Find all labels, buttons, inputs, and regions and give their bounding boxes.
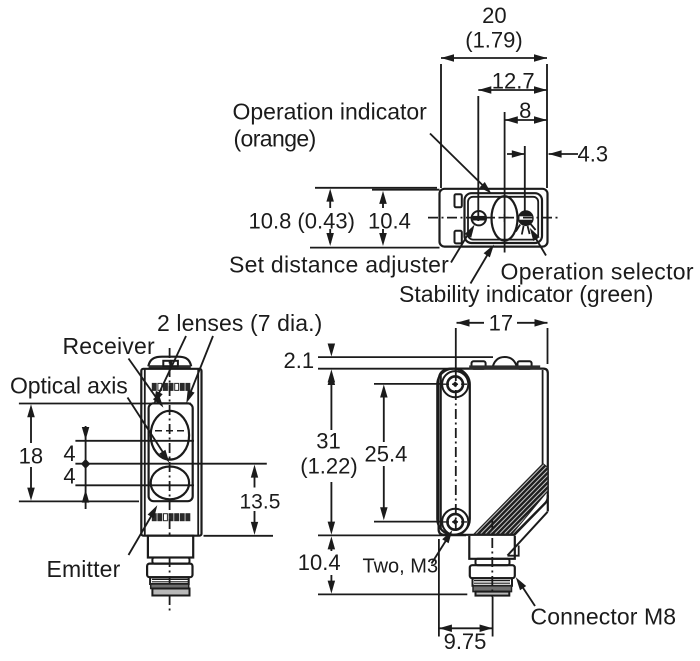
- side view: body outline: [439, 369, 548, 535]
- side view: connector ring 1: [476, 559, 510, 565]
- side view: screw cross lines: [443, 383, 468, 385]
- svg-text:10.8 (0.43): 10.8 (0.43): [249, 209, 355, 234]
- side view: connector neck: [469, 536, 515, 559]
- top view: horizontal center line: [428, 217, 560, 219]
- svg-text:Optical axis: Optical axis: [10, 373, 128, 399]
- side view: 25.4 extension lines: [374, 383, 441, 385]
- svg-text:4.3: 4.3: [578, 142, 609, 167]
- side view: dimension 10.4: [330, 541, 332, 552]
- side view: connector collar: [470, 565, 515, 578]
- dimension 4 lower arrow: [82, 490, 90, 503]
- front view: top vent dot band: [152, 383, 156, 390]
- leader: stability indicator: [471, 248, 492, 284]
- side view: connector tip: [476, 592, 510, 596]
- svg-text:Operation indicator: Operation indicator: [233, 99, 428, 125]
- top view: selector fan tick marks: [516, 225, 520, 232]
- svg-text:Stability indicator (green): Stability indicator (green): [399, 281, 653, 307]
- side view: 31/10.4 bottom extension line: [318, 534, 466, 536]
- side view: 17 extension right: [547, 328, 549, 364]
- svg-text:12.7: 12.7: [492, 69, 535, 94]
- front view: body inner edge right: [197, 370, 199, 536]
- front view: bottom vent dot band: [152, 514, 156, 521]
- dimension 13.5 line and arrows: [254, 469, 256, 488]
- svg-text:Two, M3: Two, M3: [363, 556, 439, 578]
- svg-text:10.4: 10.4: [368, 209, 411, 234]
- dimension 10.8 arrows: [329, 193, 331, 208]
- svg-text:25.4: 25.4: [365, 442, 408, 467]
- top view: operation selector screw: [519, 211, 533, 225]
- top view: inner bezel second line: [468, 197, 538, 240]
- svg-text:9.75: 9.75: [444, 629, 487, 654]
- side view: right edge lower segment: [547, 495, 549, 512]
- svg-text:2.1: 2.1: [284, 348, 315, 373]
- top view: sensor body outer outline: [440, 189, 548, 247]
- top view: ellipse center cross: [501, 217, 509, 219]
- front view: receiver lens: [151, 411, 189, 460]
- top view: dimension 12.7: [478, 89, 547, 91]
- side view: connector thread section: [473, 578, 513, 586]
- svg-text:(orange): (orange): [234, 126, 316, 152]
- svg-text:31: 31: [316, 429, 340, 454]
- front view: body outline: [141, 369, 201, 536]
- side view: dimension 17 line: [457, 322, 485, 324]
- front view: emitter lens: [151, 467, 189, 500]
- optical axis line L1 receiver: [75, 440, 194, 442]
- side view: top bump right: [518, 361, 532, 369]
- side view: inner right edge line: [542, 370, 544, 464]
- svg-text:17: 17: [489, 311, 513, 336]
- front view: dome LED windows: [163, 361, 170, 366]
- side view: 10.4 bottom extension: [318, 593, 467, 595]
- dimension 4 upper arrow: [82, 427, 90, 440]
- dimension 10.4 arrows: [382, 195, 384, 208]
- side view: M3 screw hole top: [442, 371, 468, 397]
- dimension 10.8 (0.43) upper extension line: [315, 187, 437, 189]
- svg-text:Set distance adjuster: Set distance adjuster: [229, 252, 449, 278]
- dimension 18 line and arrows: [30, 409, 32, 443]
- side view: 9.75 extension left: [438, 539, 440, 637]
- top view: extension line x524.8 to selector center: [524, 146, 526, 212]
- front body bottom extension tick: [204, 535, 274, 537]
- svg-text:20: 20: [482, 3, 506, 28]
- side view: dimension 2.1 arrows: [330, 344, 332, 353]
- svg-text:Operation selector: Operation selector: [501, 259, 694, 285]
- side view: dimension 31 line: [330, 376, 332, 431]
- side view: wedge outer diagonal: [508, 512, 548, 556]
- leader: set distance adjuster: [451, 229, 471, 263]
- svg-text:Emitter: Emitter: [47, 556, 121, 582]
- top view: dimension 8: [505, 119, 547, 121]
- top view: extension line x478.3 to adjuster center: [477, 96, 479, 221]
- side view: wedge corner lines: [508, 546, 519, 556]
- leader: emitter: [129, 511, 155, 556]
- leader: receiver: [129, 359, 161, 404]
- svg-text:(1.79): (1.79): [465, 28, 522, 53]
- side view: dimension 9.75 line: [439, 627, 493, 629]
- svg-text:Connector M8: Connector M8: [531, 604, 677, 630]
- svg-text:4: 4: [63, 441, 75, 466]
- dimension 18 bottom extension: [19, 500, 139, 502]
- leader: 2 lenses left: [157, 336, 187, 399]
- front view: connector thread section: [150, 577, 189, 584]
- top view: left mounting stub upper: [455, 194, 462, 207]
- top view: dimension 20 (1.79) lines: [441, 57, 547, 59]
- side view: connector center line: [491, 519, 493, 597]
- side view: 9.75 extension right: [492, 597, 494, 637]
- top view: set distance adjuster screw: [472, 211, 486, 225]
- front view: connector tip: [152, 589, 189, 596]
- svg-text:Receiver: Receiver: [63, 333, 155, 359]
- side view: dimension 2.1 extensions: [318, 356, 493, 358]
- leader: 2 lenses right: [189, 336, 214, 398]
- svg-text:13.5: 13.5: [240, 491, 281, 514]
- top view: extension line left x441: [440, 64, 442, 188]
- shared diamond point: [81, 459, 90, 469]
- dimension 10.8/10.4 lower extension line: [310, 247, 440, 249]
- optical axis crossing line L2: [75, 463, 266, 465]
- side view: slot vertical center line: [455, 328, 457, 371]
- front view: lens window: [149, 403, 193, 501]
- front view: connector ring 1: [152, 558, 189, 564]
- leader: optical axis: [128, 398, 167, 458]
- svg-text:(1.22): (1.22): [300, 454, 357, 479]
- svg-text:10.4: 10.4: [298, 550, 341, 575]
- leader: operation indicator to ellipse: [430, 134, 485, 188]
- leader: connector M8: [520, 583, 536, 607]
- front view: body inner edge left: [144, 370, 146, 536]
- svg-text:8: 8: [519, 98, 531, 123]
- side view: top bump left: [472, 361, 486, 369]
- side view: dimension 25.4: [383, 389, 385, 442]
- front view: dark band under dome: [149, 365, 191, 369]
- dimension 10.4 upper extension line: [372, 189, 440, 191]
- side view: dark base strip under bumps: [469, 365, 540, 369]
- front view: connector dark ring: [151, 584, 189, 589]
- optical axis line L3 emitter: [75, 484, 194, 486]
- top view: operation indicator lens ellipse: [492, 196, 518, 240]
- leader: operation selector: [534, 236, 546, 256]
- dimension 4/4 vertical line: [85, 426, 87, 509]
- side view: M3 screw hole bottom: [442, 509, 468, 535]
- top view: vertical center line: [504, 112, 506, 253]
- side view: connector dark ring: [473, 586, 512, 592]
- top view: inner bezel outline: [465, 193, 543, 243]
- dimension 18 top extension: [19, 403, 191, 405]
- leader: Two M3: [432, 535, 450, 564]
- front view: connector neck: [148, 536, 193, 558]
- svg-text:18: 18: [19, 444, 43, 469]
- svg-text:4: 4: [63, 464, 75, 489]
- top view: left mounting stub lower: [455, 231, 462, 244]
- side view: mounting slot stadium: [437, 369, 470, 535]
- front view: connector collar: [147, 564, 192, 578]
- top view: extension line right x547: [546, 64, 548, 188]
- svg-text:2 lenses (7 dia.): 2 lenses (7 dia.): [157, 310, 322, 336]
- top view: dimension 4.3: [507, 153, 525, 155]
- front view: vertical center line: [169, 348, 171, 613]
- front view: top dome cap: [148, 357, 191, 367]
- side view: top dome: [492, 357, 517, 369]
- front view: receiver center dash line: [155, 430, 185, 432]
- side view: chamfer face line: [514, 502, 547, 535]
